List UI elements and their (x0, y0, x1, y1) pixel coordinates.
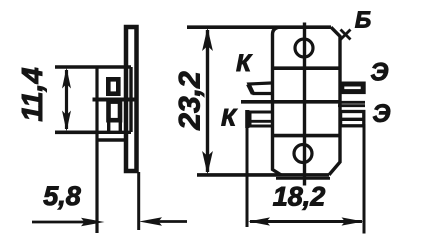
dimension 23,2: arrow line (206, 30, 209, 172)
front view: lower section boundary line (273, 134, 341, 138)
lower emitter tab E (341, 112, 364, 126)
front view: left edge with chamfers (273, 27, 282, 175)
svg-text:Э: Э (371, 59, 389, 87)
side view: lower lead (edge-on) (109, 102, 121, 121)
lower collector tab K (250, 112, 271, 126)
front view: upper section boundary line (273, 66, 341, 70)
dimension 18,2: right extension line (363, 124, 366, 234)
dimension 18,2: left extension line (246, 126, 249, 227)
front view: middle collector line (241, 100, 340, 104)
dimension 11,4: arrow line (65, 70, 68, 129)
emitter tab middle lines (338, 102, 365, 105)
upper collector tab K (249, 83, 271, 94)
svg-text:К: К (236, 50, 253, 77)
upper emitter tab E (342, 84, 363, 92)
front view: bottom mounting hole (294, 145, 312, 163)
svg-text:5,8: 5,8 (43, 181, 81, 211)
front view: top edge + 23,2 top extension line (187, 25, 331, 29)
side view: mid parting line between leads (93, 98, 139, 102)
side view: transistor body outline (97, 67, 131, 132)
side view: upper lead (edge-on) (108, 79, 118, 93)
base corner marker x (341, 30, 351, 40)
side view: body seat line (98, 138, 128, 141)
dimension 5,8: right extension line (137, 172, 140, 230)
front view: top mounting hole (295, 39, 313, 57)
dimension 11,4: top extension line (55, 65, 97, 68)
svg-text:18,2: 18,2 (273, 182, 326, 212)
side view: mounting flange plate (edge-on) (126, 27, 137, 171)
svg-text:23,2: 23,2 (174, 71, 207, 131)
dimension 5,8: right arrow (155, 220, 187, 223)
dimension 5,8: left arrow (32, 221, 88, 224)
front view: bottom edge + 23,2 bottom extension line (197, 173, 329, 177)
dimension 11,4: bottom extension line (55, 131, 97, 135)
front view: top-right chamfer, right edge, bottom-right chamfer (329, 27, 340, 175)
front view: vertical center line (303, 23, 306, 186)
side view: body left edge + extension line for 5,8 (95, 66, 98, 233)
svg-text:Э: Э (373, 100, 391, 128)
svg-text:Б: Б (355, 7, 371, 33)
dimension 18,2: dimension line with outward arrows (250, 220, 362, 223)
svg-text:К: К (221, 105, 238, 132)
svg-text:11,4: 11,4 (17, 67, 49, 121)
